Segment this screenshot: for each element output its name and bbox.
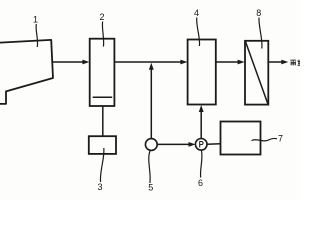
svg-text:8: 8: [256, 8, 261, 18]
outlet wire from box8: [268, 61, 285, 63]
box 7 (chemical tank): [221, 122, 261, 155]
pump P (circle 6): [195, 139, 207, 151]
leader line 2: [102, 22, 103, 47]
wire circle5 up to main line with arrowhead: [150, 66, 152, 139]
box 8 (membrane module): [245, 41, 268, 105]
leader line 3: [100, 148, 103, 182]
svg-text:5: 5: [148, 183, 153, 193]
inner support line of box 2: [93, 96, 113, 98]
leader line 7: [252, 138, 278, 140]
svg-text:4: 4: [194, 8, 199, 18]
wire box2 to box4: [114, 61, 184, 63]
svg-text:6: 6: [198, 178, 203, 188]
svg-text:7: 7: [278, 134, 283, 144]
leader line 5: [149, 150, 151, 183]
membrane diagonal: [245, 41, 268, 104]
box 2 (filter column): [90, 39, 115, 106]
box 4 (reaction column): [188, 40, 216, 105]
circle 5 (injection point): [145, 139, 157, 151]
wire box2 bottom to box3: [102, 107, 104, 136]
box 3 (backwash unit): [89, 136, 116, 154]
svg-text:2: 2: [99, 12, 104, 22]
wire tank1 to box2: [52, 61, 86, 63]
arrowhead up at junction: [149, 63, 154, 70]
wire pump P up into box4 with arrowhead: [200, 108, 202, 139]
wire circle5 to pump P with arrowhead: [157, 143, 192, 145]
wire box7 to pump P: [207, 143, 221, 145]
tank 1 (raw water basin): [0, 40, 53, 104]
wire box4 to box8: [216, 61, 242, 63]
svg-text:1: 1: [33, 15, 38, 25]
outlet text 再生 drawn as vector strokes (clipped at edge): [290, 60, 300, 66]
arrowhead into box2: [82, 60, 89, 65]
leader line 8: [259, 18, 262, 49]
svg-text:3: 3: [97, 182, 102, 192]
arrowhead into box4: [180, 60, 187, 65]
leader line 6: [200, 150, 201, 177]
leader line 1: [36, 24, 37, 47]
leader line 4: [197, 18, 200, 47]
